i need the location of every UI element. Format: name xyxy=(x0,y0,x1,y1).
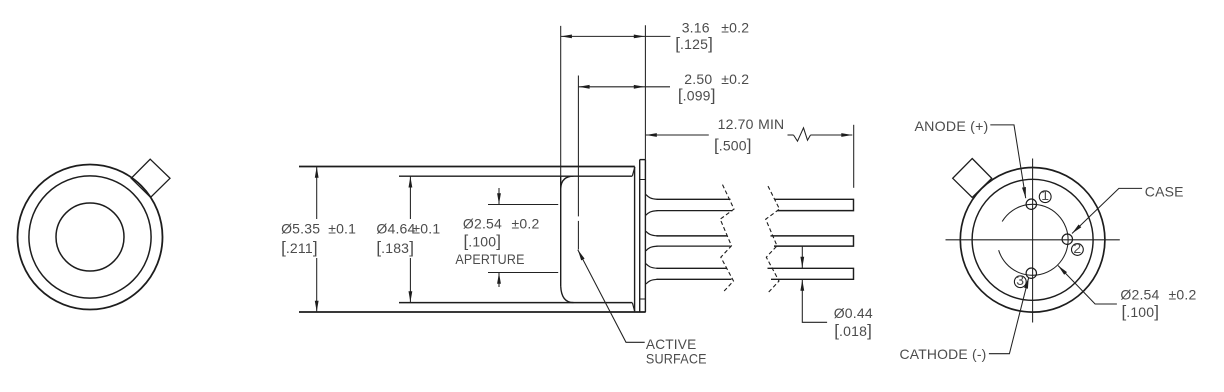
dimension dia 2.54 pin circle: text and leader xyxy=(1058,266,1196,322)
svg-text:2.50: 2.50 xyxy=(684,71,712,87)
active surface text xyxy=(646,336,707,367)
pin 3 xyxy=(1026,268,1036,278)
rear view: outer circle xyxy=(960,168,1105,313)
right break line (dashed zigzag) xyxy=(766,186,780,292)
rear view: inner rim circle xyxy=(972,179,1093,300)
dimension dia 5.35: text xyxy=(281,220,356,257)
side view: can top outline xyxy=(299,167,635,176)
lead 2 right segment xyxy=(771,236,854,246)
svg-text:APERTURE: APERTURE xyxy=(455,251,524,267)
svg-text:±0.1: ±0.1 xyxy=(328,220,356,236)
svg-text:±0.2: ±0.2 xyxy=(512,215,540,231)
lead 3 right segment xyxy=(768,268,854,279)
front view: outer circle (case rim) xyxy=(18,165,163,310)
svg-text:3: 3 xyxy=(1016,272,1024,288)
svg-text:SURFACE: SURFACE xyxy=(646,350,707,366)
dimension dia 2.54 aperture: arrows xyxy=(497,188,501,287)
svg-text:[.125]: [.125] xyxy=(675,34,713,53)
dimension 3.16: right extension line (flange face datum) xyxy=(644,25,646,159)
side view: window top fillet xyxy=(561,176,574,188)
dimension 3.16: text xyxy=(675,20,749,53)
pin 1 xyxy=(1026,199,1036,209)
svg-text:Ø2.54: Ø2.54 xyxy=(463,215,502,231)
svg-text:[.500]: [.500] xyxy=(714,136,752,155)
lead 3 left segment xyxy=(657,268,732,279)
side view: window left edge + 3.16 extension line xyxy=(560,26,562,286)
dimension dia 0.44: arrows and leader xyxy=(800,246,827,322)
svg-text:[.211]: [.211] xyxy=(281,238,317,257)
svg-text:±0.2: ±0.2 xyxy=(721,71,749,87)
side view: inner bottom line (4.64 dia) xyxy=(399,302,632,304)
lead 1 left segment xyxy=(657,199,733,210)
svg-text:12.70: 12.70 xyxy=(718,116,754,132)
dimension 12.70 MIN: text xyxy=(714,116,784,154)
svg-text:2: 2 xyxy=(1073,240,1081,256)
front view: lens/window circle xyxy=(56,203,124,271)
svg-text:[.100]: [.100] xyxy=(464,231,502,250)
side view: flange top cap xyxy=(640,159,646,161)
anode label and leader xyxy=(915,118,1026,198)
side view: flange left face xyxy=(639,160,641,312)
dimension dia 0.44: text xyxy=(834,305,873,340)
balloon 3 xyxy=(1014,272,1026,288)
svg-text:[.183]: [.183] xyxy=(376,238,414,257)
case label and leader xyxy=(1072,183,1184,233)
side view: flange inner tick top xyxy=(640,179,646,181)
svg-text:Ø4.64: Ø4.64 xyxy=(376,220,415,236)
dimension 12.70 MIN: right extension line (lead ends) xyxy=(853,125,855,188)
rear view: vertical centerline xyxy=(1032,159,1034,323)
dimension 2.50: dim line and arrows xyxy=(579,85,670,89)
lead 3 taper xyxy=(646,264,658,284)
side view: inner top line (4.64 dia) xyxy=(399,175,632,177)
svg-text:Ø2.54: Ø2.54 xyxy=(1120,286,1159,302)
lead 2 left segment xyxy=(657,236,731,246)
svg-text:MIN: MIN xyxy=(758,116,784,132)
dimension 2.50: text xyxy=(678,71,749,105)
dimension 3.16: dim line and arrows xyxy=(561,35,671,39)
lead 1 taper xyxy=(646,195,658,216)
pin 2 xyxy=(1062,234,1072,244)
aperture bottom line xyxy=(488,272,558,274)
svg-text:3.16: 3.16 xyxy=(682,20,710,36)
dimension dia 4.64: text xyxy=(376,220,440,257)
dimension dia 2.54 aperture: text xyxy=(455,215,539,267)
svg-text:CASE: CASE xyxy=(1145,183,1184,199)
lead 2 taper xyxy=(646,231,658,251)
svg-text:±0.2: ±0.2 xyxy=(1169,286,1197,302)
left break line (dashed zigzag) xyxy=(720,185,734,293)
svg-text:±0.1: ±0.1 xyxy=(412,220,440,236)
front view: locating tab (rotated square) xyxy=(131,159,170,197)
dimension dia 5.35: dim line and arrows xyxy=(315,167,319,313)
active surface leader and arrow xyxy=(578,250,645,343)
side view: can bottom outline xyxy=(299,303,646,312)
rear view: horizontal centerline xyxy=(946,239,1120,241)
dimension 12.70 MIN: dim line with break xyxy=(646,128,853,141)
svg-text:Ø5.35: Ø5.35 xyxy=(281,220,320,236)
balloon 1 xyxy=(1039,187,1051,203)
svg-text:Ø0.44: Ø0.44 xyxy=(834,305,873,321)
side view: flange right face xyxy=(644,160,646,312)
rear view: pin circle (2.54 bolt circle arc with gap) xyxy=(999,204,1068,275)
svg-text:1: 1 xyxy=(1041,187,1049,203)
side view: flange inner tick bottom xyxy=(640,298,646,300)
svg-text:ANODE (+): ANODE (+) xyxy=(915,118,989,134)
svg-text:CATHODE (-): CATHODE (-) xyxy=(900,346,987,362)
svg-text:[.018]: [.018] xyxy=(834,321,872,340)
dimension dia 4.64: dim line and arrows xyxy=(409,176,413,302)
balloon 2 xyxy=(1072,240,1084,256)
lead 1 right segment xyxy=(775,199,854,210)
svg-text:[.100]: [.100] xyxy=(1122,302,1160,321)
side view: can end face xyxy=(634,167,636,311)
svg-text:[.099]: [.099] xyxy=(678,86,716,105)
cathode label and leader xyxy=(900,278,1029,362)
front view: inner rim circle xyxy=(29,176,151,298)
side view: window bottom fillet xyxy=(561,286,574,303)
svg-text:±0.2: ±0.2 xyxy=(721,20,749,36)
rear view: locating tab (rotated square) xyxy=(953,159,992,198)
dimension 2.50: extension line to active surface xyxy=(577,76,579,250)
aperture top line xyxy=(488,204,558,206)
